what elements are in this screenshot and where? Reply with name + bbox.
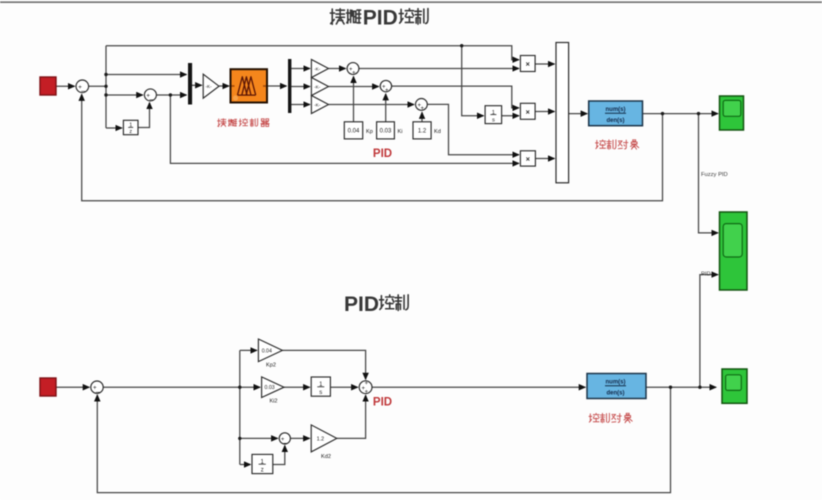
svg-text:1: 1 <box>129 123 132 129</box>
svg-text:1.2: 1.2 <box>317 436 325 442</box>
svg-text:–: – <box>284 440 288 447</box>
svg-text:+: + <box>385 88 389 94</box>
svg-text:+: + <box>352 70 356 76</box>
svg-text:×: × <box>526 60 530 69</box>
svg-text:+: + <box>365 381 369 387</box>
svg-text:Kd: Kd <box>434 129 441 135</box>
svg-text:s: s <box>492 117 495 123</box>
svg-text:-K-: -K- <box>314 84 321 89</box>
svg-text:Ki2: Ki2 <box>269 398 277 404</box>
svg-text:-K-: -K- <box>314 66 321 71</box>
svg-text:num(s): num(s) <box>606 379 626 385</box>
svg-text:PID: PID <box>373 397 392 409</box>
svg-text:+: + <box>365 390 369 396</box>
svg-text:×: × <box>526 155 530 164</box>
svg-text:s: s <box>319 390 322 396</box>
svg-text:Fuzzy PID: Fuzzy PID <box>701 172 728 178</box>
svg-text:1: 1 <box>492 110 495 116</box>
svg-text:PID: PID <box>344 293 379 316</box>
svg-text:Kp: Kp <box>366 129 373 135</box>
svg-text:-K-: -K- <box>206 84 213 89</box>
svg-text:×: × <box>526 107 530 116</box>
svg-text:num(s): num(s) <box>606 107 626 113</box>
svg-text:z: z <box>261 467 264 473</box>
svg-text:0.04: 0.04 <box>348 129 360 135</box>
svg-text:PID: PID <box>373 148 392 160</box>
svg-text:z: z <box>129 129 132 135</box>
svg-text:0.04: 0.04 <box>262 348 272 354</box>
svg-text:den(s): den(s) <box>607 118 625 124</box>
svg-text:0.03: 0.03 <box>265 385 275 391</box>
svg-text:-K-: -K- <box>314 102 321 107</box>
svg-text:Kp2: Kp2 <box>266 363 276 369</box>
svg-text:+: + <box>420 106 424 112</box>
svg-text:0.03: 0.03 <box>380 129 392 135</box>
svg-text:PID: PID <box>363 7 398 30</box>
svg-text:Kd2: Kd2 <box>321 454 331 460</box>
svg-text:Ki: Ki <box>398 129 403 135</box>
svg-text:den(s): den(s) <box>607 390 625 396</box>
svg-text:1.2: 1.2 <box>418 129 427 135</box>
